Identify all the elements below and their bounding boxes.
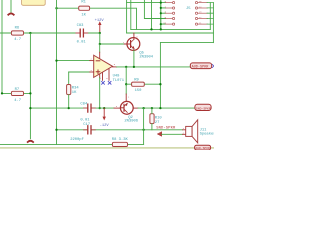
junction +12V on rail: [99, 32, 101, 34]
svg-text:R6: R6: [15, 26, 20, 30]
svg-text:5: 5: [106, 77, 108, 80]
capacitor C84: [84, 107, 96, 109]
svg-text:2: 2: [128, 95, 130, 98]
wire from +12V rail down to Q5 base: [100, 33, 125, 44]
connector J5 left pins 6-10: [166, 1, 175, 25]
wire maze vertical x=144.4 to pin9 row: [144, 0, 165, 19]
wire vertical x=143.6: [143, 108, 145, 144]
wire C17 net y=129.8 to speaker: [57, 129, 183, 131]
svg-text:-12V: -12V: [100, 124, 110, 128]
wire vertical x=30.4 rail to ground: [29, 33, 31, 139]
wire R1 net horizontal y=8.2: [57, 8, 137, 29]
svg-text:Speaker: Speaker: [200, 132, 214, 137]
svg-text:2N3904: 2N3904: [139, 55, 153, 59]
svg-text:SND-SPKR: SND-SPKR: [156, 127, 176, 131]
op-amp U49: [94, 55, 113, 77]
op-amp pin 2 wire (inverting): [57, 60, 90, 62]
wire vertical right x=210.3: [209, 3, 211, 30]
resistor R9: [126, 83, 160, 85]
transistor Q5: [124, 33, 139, 50]
svg-text:R8 3.3K: R8 3.3K: [112, 138, 129, 142]
net flag AUD-SPKR bottom: [195, 145, 211, 150]
resistor R7: [2, 92, 30, 94]
net flag SND-SPKR right: [195, 104, 211, 110]
svg-text:C17: C17: [83, 123, 90, 127]
wire bottom net y=144.4: [0, 143, 144, 145]
no-connect cross pin5: [108, 81, 111, 84]
op-amp V+ pin from +12V node: [99, 44, 101, 52]
net flag mini speaker wire2: [157, 132, 161, 136]
svg-text:4.7: 4.7: [14, 38, 21, 42]
svg-text:C84: C84: [80, 102, 88, 106]
svg-text:3: 3: [90, 69, 92, 72]
svg-text:1K: 1K: [81, 14, 86, 18]
wire maze vertical x=126.6 to pin6 row: [126, 0, 128, 33]
svg-text:R10: R10: [155, 117, 163, 121]
no-connect cross pin1: [102, 81, 105, 84]
junction at R1 left: [55, 7, 57, 9]
svg-text:R34: R34: [72, 86, 80, 90]
ground symbol top-left: [8, 13, 13, 14]
wire vertical right x=213.4: [212, 3, 214, 43]
svg-text:2N3906: 2N3906: [124, 120, 138, 124]
svg-text:SND-SPKR: SND-SPKR: [196, 106, 211, 110]
svg-text:0.01: 0.01: [80, 118, 90, 122]
wire speaker pin2: [162, 133, 183, 135]
net flag AUD-SPKR right: [190, 63, 211, 69]
op-amp V- pin down to -12V line: [99, 74, 101, 78]
svg-text:2: 2: [90, 57, 92, 60]
wire maze vertical x=151.5: [151, 0, 153, 29]
bus stubs to connector pins: [161, 8, 166, 24]
resistor R34: [67, 85, 71, 95]
svg-text:R9: R9: [134, 79, 139, 83]
svg-text:1K: 1K: [72, 91, 77, 95]
op-amp balance pins with no-connect crosses: [103, 69, 110, 80]
svg-text:+12V: +12V: [95, 19, 105, 23]
svg-text:1: 1: [100, 77, 102, 80]
transistor Q2: [120, 101, 133, 114]
wire vertical x=160.4 down: [159, 43, 161, 109]
svg-text:3: 3: [136, 36, 138, 39]
svg-text:2200pF: 2200pF: [70, 138, 84, 142]
wire output node down to R9 line and Q2: [125, 67, 127, 84]
resistor R6: [11, 31, 23, 35]
svg-text:AUD-SPKR: AUD-SPKR: [192, 65, 210, 69]
wire +12V rail horizontal y=33: [0, 32, 213, 34]
wire vertical mid-left x=56.5: [56, 0, 58, 144]
wire short vertical to ground top-left: [10, 0, 12, 13]
speaker J11: [186, 126, 192, 136]
capacitor C17: [84, 129, 96, 131]
wire maze vertical x=131.2: [130, 0, 132, 29]
frame yellow box top: [22, 0, 46, 5]
wire bus vertical x=160.8: [160, 0, 162, 29]
svg-text:R1: R1: [81, 1, 86, 5]
wire y=42.6 from right rail: [160, 42, 213, 44]
frame bottom border: [0, 147, 214, 149]
svg-text:4.7: 4.7: [14, 99, 21, 103]
wire Q2 base line y=108.1 from left: [30, 107, 114, 109]
op-amp pin 3 wire (non-inverting): [69, 71, 90, 73]
wire Q5 emitter down to output node: [133, 50, 135, 67]
wire maze horizontal y=29.8: [131, 28, 211, 30]
resistor R1: [79, 6, 90, 10]
svg-text:AUD-SPKR: AUD-SPKR: [195, 147, 210, 150]
capacitor C83: [76, 32, 88, 34]
junction on rail at x=30.4: [29, 32, 31, 34]
wire L2 right of Q2: [133, 107, 138, 109]
svg-text:6: 6: [114, 63, 116, 66]
svg-text:TL071: TL071: [113, 79, 125, 83]
wire to R34: [68, 72, 70, 85]
ground symbol bottom-left: [28, 141, 33, 142]
wire left vertical net A: [1, 0, 3, 93]
supply +12V arrow: [99, 25, 101, 34]
svg-text:0.01: 0.01: [77, 40, 87, 44]
svg-text:J5: J5: [186, 7, 191, 11]
wires right of connector: [207, 3, 213, 25]
supply -12V arrow: [103, 107, 105, 109]
connector J5 right pins 11-15: [195, 1, 207, 25]
svg-text:150: 150: [135, 89, 143, 93]
op-amp output wire: [113, 66, 117, 68]
resistor R10: [150, 114, 154, 124]
svg-text:R7: R7: [15, 88, 20, 92]
svg-text:27: 27: [155, 121, 160, 125]
resistor R8: [112, 142, 127, 146]
svg-text:C83: C83: [77, 24, 85, 28]
wire R34 bottom down: [68, 95, 70, 109]
